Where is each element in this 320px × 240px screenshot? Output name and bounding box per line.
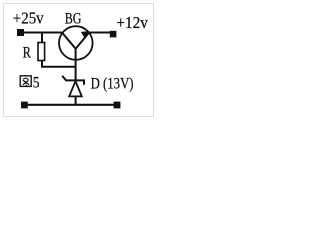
- svg-text:R: R: [23, 44, 32, 62]
- svg-text:BG: BG: [65, 10, 82, 28]
- svg-text:+12v: +12v: [116, 14, 148, 32]
- svg-text:D (13V): D (13V): [91, 75, 134, 93]
- svg-text:+25v: +25v: [13, 10, 44, 28]
- svg-text:5: 5: [33, 74, 40, 91]
